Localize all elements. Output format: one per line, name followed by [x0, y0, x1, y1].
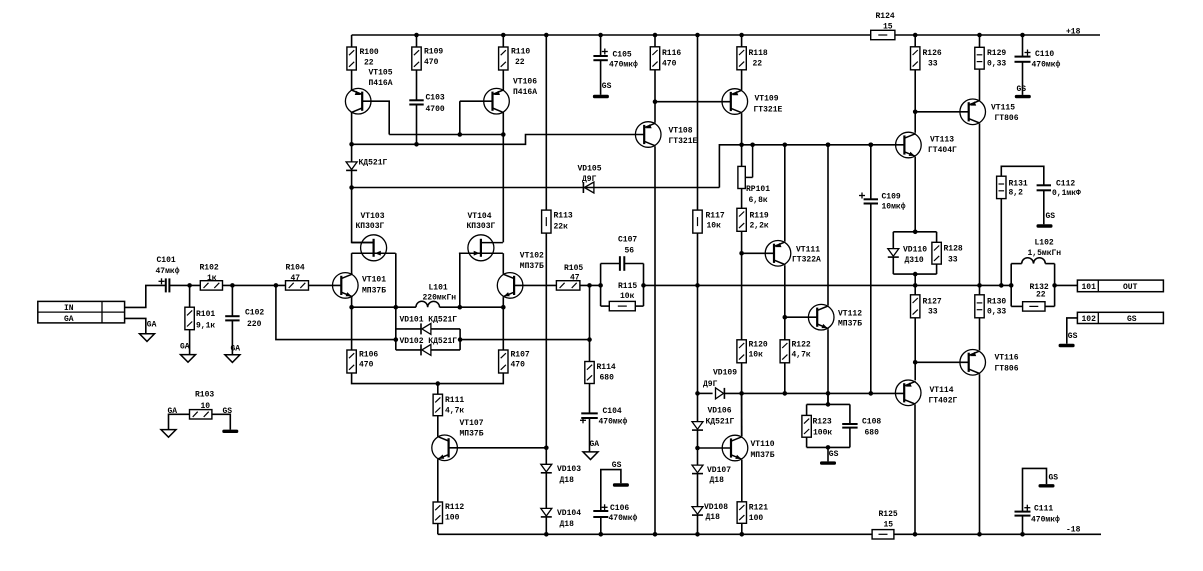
svg-text:GA: GA — [180, 342, 190, 351]
label VT106 П416А — [513, 78, 537, 97]
wire VD102 branch right — [431, 349, 460, 351]
wire R115 branch right — [635, 305, 643, 307]
svg-text:МП37Б: МП37Б — [460, 430, 484, 439]
label R103 10 — [195, 391, 214, 412]
label VT105 П416А — [369, 69, 393, 89]
wire VD110 box top line — [893, 231, 936, 233]
node VT112 emitter drive line — [826, 391, 831, 396]
node rail C110 — [1020, 33, 1025, 38]
capacitor C110 — [1015, 50, 1031, 62]
svg-text:R102: R102 — [200, 264, 219, 273]
resistor R105 — [556, 281, 580, 290]
node VT110 base — [695, 446, 700, 451]
svg-text:ГТ402Г: ГТ402Г — [929, 396, 958, 405]
svg-text:Д18: Д18 — [706, 513, 721, 522]
capacitor C109 — [859, 193, 878, 204]
label R124 15 — [876, 12, 895, 31]
svg-text:VT113: VT113 — [930, 135, 954, 144]
wire C107 branch right — [624, 263, 643, 265]
label R119 2,2к — [750, 211, 769, 230]
svg-text:GA: GA — [590, 440, 600, 449]
svg-text:GA: GA — [147, 321, 157, 330]
node VT111 collector line — [783, 143, 788, 148]
svg-text:1,5мкГн: 1,5мкГн — [1028, 249, 1062, 258]
resistor R101 — [185, 307, 194, 330]
label R123 100к — [813, 417, 833, 437]
wire R126 to node — [914, 70, 916, 133]
diode VD108 Д18 — [692, 507, 703, 515]
resistor R110 — [499, 47, 508, 70]
svg-text:0,1мкФ: 0,1мкФ — [1052, 189, 1081, 198]
node rail R116 — [653, 33, 658, 38]
diode VD107 Д18 — [692, 465, 703, 474]
wire node to VT109 base — [655, 101, 731, 103]
svg-text:R105: R105 — [564, 264, 583, 273]
svg-text:VT107: VT107 — [460, 419, 484, 428]
resistor R103 — [190, 410, 212, 419]
connector X1 IN/GA — [38, 301, 125, 324]
svg-text:R128: R128 — [944, 244, 963, 253]
svg-text:VD108: VD108 — [704, 503, 728, 512]
node R115 box right — [641, 283, 646, 288]
svg-text:R114: R114 — [597, 363, 616, 372]
label R100 22 — [360, 48, 379, 68]
svg-text:Д9Г: Д9Г — [582, 175, 597, 184]
wire C109 down — [870, 204, 872, 394]
label C102 220 — [245, 309, 264, 329]
node VT106 base riser joins — [458, 132, 463, 137]
svg-text:22к: 22к — [554, 222, 569, 231]
node rail R113 col — [544, 33, 549, 38]
connector GS — [1077, 312, 1163, 324]
wire VT113 emitter down — [914, 157, 916, 232]
svg-text:R116: R116 — [662, 49, 681, 58]
resistor R132 — [1023, 302, 1045, 311]
svg-text:VD109: VD109 — [713, 368, 737, 377]
diode VD110 Д310 — [888, 249, 899, 258]
svg-text:470: 470 — [662, 59, 677, 68]
wire R118 to VT109 — [741, 70, 743, 90]
label C110 470мкф — [1032, 50, 1061, 70]
capacitor C105 — [593, 49, 607, 61]
svg-text:GS: GS — [223, 407, 233, 416]
node VT116 rail — [977, 532, 982, 537]
node R117 mid — [695, 283, 700, 288]
wire C107 branch left — [601, 263, 620, 265]
svg-text:4,7к: 4,7к — [792, 350, 811, 359]
node VT103 gate tap — [394, 305, 399, 310]
label C107 56 — [618, 235, 637, 255]
resistor R102 — [200, 281, 222, 290]
node rail R110 — [501, 33, 506, 38]
diode VD104 Д18 — [541, 508, 552, 517]
svg-text:R120: R120 — [749, 340, 768, 349]
wire R116 to node — [654, 70, 656, 102]
label R128 33 — [944, 244, 963, 264]
label R110 22 — [511, 48, 530, 68]
svg-text:GS: GS — [1068, 332, 1078, 341]
label L102 1,5мкГн — [1028, 239, 1062, 258]
svg-text:R106: R106 — [359, 350, 378, 359]
wire R123 box bottom line — [807, 446, 850, 448]
label R118 22 — [749, 49, 768, 69]
wire VT103 source to VT101 — [351, 253, 353, 273]
svg-text:470мкф: 470мкф — [599, 417, 628, 426]
resistor R125 — [872, 530, 894, 539]
ground GA C102 — [225, 355, 240, 363]
wire R115 box right stub — [643, 264, 645, 307]
diode VD101 КД521Г — [421, 323, 431, 334]
svg-text:GS: GS — [612, 461, 622, 470]
wire C105 to ground — [600, 60, 602, 95]
wire L102 left stub — [1010, 264, 1012, 307]
wire C105 stem — [600, 35, 602, 56]
transistor VT104 КП303Г — [459, 235, 503, 261]
wire C101 to R102 — [169, 284, 200, 286]
svg-text:VD101 КД521Г: VD101 КД521Г — [400, 315, 458, 324]
svg-text:56: 56 — [625, 246, 635, 255]
label R111 4,7к — [445, 396, 464, 416]
label C101 47мкф — [156, 256, 180, 276]
wire L102 right stub — [1054, 264, 1056, 307]
node C103 mirror line — [414, 142, 419, 147]
node C109 line — [869, 143, 874, 148]
capacitor C112 — [1037, 185, 1051, 190]
wire VT108 emitter up — [654, 102, 656, 123]
wire VT106 base riser drop — [459, 101, 461, 134]
wire R131 column — [1000, 199, 1002, 286]
label R116 470 — [662, 49, 681, 69]
wire feedback drop — [276, 285, 396, 339]
node VT109 RP101 — [739, 143, 744, 148]
resistor R121 — [737, 502, 746, 524]
svg-text:VT116: VT116 — [995, 354, 1019, 363]
svg-text:C103: C103 — [426, 93, 445, 102]
wire R120 down — [741, 363, 743, 436]
wire rail to R113 — [545, 35, 547, 210]
resistor R118 — [737, 47, 746, 70]
label VT115 ГТ806 — [991, 104, 1019, 124]
wire L102 top branch left — [1011, 263, 1022, 265]
label R130 0,33 — [987, 297, 1006, 316]
wire VT110 emitter down — [741, 460, 743, 502]
wire R100 top to rail — [351, 35, 353, 47]
node VT108 rail — [653, 532, 658, 537]
wire VD107 to VD108 — [697, 474, 699, 507]
wire VT101 emitter down — [351, 297, 353, 307]
node L102 box right — [1052, 283, 1057, 288]
svg-text:C108: C108 — [862, 417, 881, 426]
svg-text:470: 470 — [359, 360, 374, 369]
wire C106 stem bottom — [600, 517, 602, 534]
node mid R114 — [587, 283, 592, 288]
wire VD110 box left top — [892, 232, 894, 248]
svg-text:МП37Б: МП37Б — [838, 320, 862, 329]
wire R114 column — [589, 285, 591, 361]
transistor VT103 КП303Г — [352, 235, 396, 261]
transistor VT113 — [896, 132, 922, 158]
wire R106-R107 bottom link — [352, 373, 504, 384]
wire VT105 emitter... collector to node — [351, 113, 353, 145]
node diode box left — [394, 337, 399, 342]
svg-text:VT103: VT103 — [361, 212, 385, 221]
svg-text:VT112: VT112 — [838, 310, 862, 319]
svg-text:R124: R124 — [876, 12, 895, 21]
svg-text:GS: GS — [602, 82, 612, 91]
wire R115 branch left — [601, 305, 610, 307]
ground GA C104 — [583, 452, 598, 460]
wire VD104 to rail — [545, 517, 547, 534]
resistor R124 — [871, 30, 895, 39]
label VD104 Д18 — [557, 509, 581, 529]
node VT104 gate tap — [458, 305, 463, 310]
label R114 680 — [597, 363, 616, 383]
transistor VT116 — [960, 350, 986, 376]
svg-text:R123: R123 — [813, 417, 832, 426]
node rail C106 — [599, 532, 604, 537]
resistor R129 — [975, 47, 984, 69]
wire R128 bottom stub — [936, 264, 938, 274]
wire lower drive line — [698, 392, 713, 394]
node diode / VAS line — [349, 185, 354, 190]
node rail R117 — [695, 33, 700, 38]
potentiometer RP101 — [738, 145, 753, 189]
wire VD110 box bottom line — [893, 273, 936, 275]
svg-text:100: 100 — [445, 513, 460, 522]
node rail C105 — [598, 33, 603, 38]
wire VT111 emitter down — [784, 265, 786, 340]
svg-text:VT102: VT102 — [520, 252, 544, 261]
wire R123 bottom stub — [806, 437, 808, 447]
svg-text:C112: C112 — [1056, 179, 1075, 188]
node VD104 rail — [544, 532, 549, 537]
node VT112 collector line — [826, 143, 831, 148]
node C101/R101 — [187, 283, 192, 288]
wire R123 stub — [806, 404, 808, 415]
svg-text:VD103: VD103 — [557, 465, 581, 474]
svg-text:КП303Г: КП303Г — [356, 222, 385, 231]
transistor VT112 — [808, 304, 834, 330]
diode КД521Г — [346, 162, 357, 171]
node R115 box left — [598, 283, 603, 288]
capacitor C107 — [620, 256, 624, 271]
svg-text:R111: R111 — [445, 396, 464, 405]
node VD110 box bottom — [913, 272, 918, 277]
resistor R126 — [911, 47, 920, 70]
inductor L102 — [1022, 258, 1046, 264]
svg-text:R126: R126 — [923, 49, 942, 58]
svg-text:R119: R119 — [750, 211, 769, 220]
wire VT107 to R112 — [437, 460, 439, 502]
wire rail to R109 — [416, 35, 418, 47]
diode VD102 КД521Г — [421, 344, 431, 355]
svg-text:C110: C110 — [1035, 50, 1054, 59]
label R106 470 — [359, 350, 378, 369]
resistor R104 — [286, 281, 309, 290]
transistor VT102 — [497, 273, 523, 299]
wire C111 top link — [1023, 468, 1047, 511]
wire VT104 gate drop — [459, 253, 461, 307]
label C111 470мкф — [1031, 504, 1060, 524]
diode VD109 Д9Г — [716, 388, 725, 399]
svg-text:C106: C106 — [610, 504, 629, 513]
wire VT112 base lead — [785, 316, 817, 318]
wire VT111 collector up — [784, 145, 786, 242]
svg-text:ГТ404Г: ГТ404Г — [928, 146, 957, 155]
wire RP101 top lead — [741, 145, 743, 167]
wire VT103 gate drop — [395, 253, 397, 350]
svg-text:9,1к: 9,1к — [196, 322, 215, 331]
svg-text:C104: C104 — [603, 407, 622, 416]
wire VT105 base riser — [362, 101, 389, 134]
wire main line right of R115 box — [644, 284, 1012, 286]
node C109 drive line — [869, 391, 874, 396]
wire R110 to VT106 — [502, 70, 504, 90]
wire VT106 base riser — [460, 100, 493, 102]
wire VT116 emitter down — [979, 374, 981, 534]
wire R115 box left stub — [600, 264, 602, 307]
wire node down to VT103 drain — [352, 188, 374, 243]
wire -18V bottom rail (left section) — [438, 533, 872, 535]
wire R111 to VT107 — [437, 416, 439, 436]
node VT101 emitter — [349, 305, 354, 310]
wire C103 to mirror line — [416, 105, 418, 145]
svg-text:R113: R113 — [554, 211, 573, 220]
label VT114 ГТ402Г — [929, 386, 958, 405]
svg-text:0,33: 0,33 — [987, 59, 1006, 68]
wire R127 to node — [914, 318, 916, 381]
label R115 10к — [618, 282, 637, 301]
svg-text:33: 33 — [948, 255, 958, 264]
resistor R112 — [433, 502, 442, 524]
label VT102 МП37Б — [520, 252, 544, 271]
wire VT107 base line — [449, 447, 547, 449]
label VT101 МП37Б — [362, 275, 386, 295]
svg-text:КД521Г: КД521Г — [359, 159, 388, 168]
svg-text:470мкф: 470мкф — [1031, 515, 1060, 524]
svg-text:VD106: VD106 — [708, 406, 732, 415]
transistor VT105 — [345, 88, 371, 114]
svg-text:VT110: VT110 — [751, 440, 775, 449]
wire VT102 base to R105 — [514, 284, 556, 286]
node R122 drive line — [783, 391, 788, 396]
ground GS R103 — [222, 430, 238, 433]
label R132 22 — [1030, 283, 1049, 299]
svg-text:VT105: VT105 — [369, 69, 393, 78]
wire R109 to C103 — [416, 70, 418, 100]
svg-text:GS: GS — [1127, 315, 1137, 324]
wire VT105 to diode — [351, 144, 353, 161]
label R109 470 — [424, 48, 443, 68]
wire C112 to ground — [1043, 190, 1045, 224]
label VT116 ГТ806 — [995, 354, 1019, 374]
wire VD110 box left bottom — [892, 257, 894, 274]
wire R100 to VT105 — [351, 70, 353, 90]
wire VD101 branch — [396, 328, 421, 330]
label R113 22к — [554, 211, 573, 231]
node rail C111 — [1020, 532, 1025, 537]
svg-text:4700: 4700 — [426, 105, 445, 114]
label VD105 Д9Г — [578, 164, 602, 184]
label VD103 Д18 — [557, 465, 581, 485]
node VT112 base tap — [783, 315, 788, 320]
transistor VT110 — [722, 435, 748, 461]
wire to OUT connector — [1055, 284, 1078, 286]
wire VT112 emitter down — [827, 329, 829, 404]
ground GA input — [140, 334, 155, 342]
node VT114 rail — [913, 532, 918, 537]
svg-text:22: 22 — [1036, 290, 1046, 299]
svg-text:R115: R115 — [618, 282, 637, 291]
node VT106 collector joins — [501, 132, 506, 137]
node R111 tap — [436, 381, 441, 386]
wire emitter line right — [440, 306, 504, 308]
ground GA R103 — [161, 430, 176, 438]
label VT110 МП37Б — [751, 440, 775, 460]
resistor R127 — [911, 295, 920, 318]
svg-text:47мкф: 47мкф — [156, 267, 180, 276]
svg-text:VT108: VT108 — [669, 126, 693, 135]
label VT104 КП303Г — [467, 212, 496, 231]
svg-text:10к: 10к — [749, 350, 764, 359]
wire R103 right to GS — [212, 414, 230, 429]
wire VD106 to node — [697, 430, 699, 465]
capacitor C106 — [593, 504, 608, 517]
diode VD103 Д18 — [541, 464, 552, 473]
wire rail to R110 — [502, 35, 504, 47]
wire R106 column — [351, 307, 353, 350]
wire VD101 branch right — [431, 328, 460, 330]
wire R132 branch left — [1011, 305, 1022, 307]
ground GS C111 — [1039, 484, 1055, 487]
svg-text:VD104: VD104 — [557, 509, 581, 518]
label R126 33 — [923, 49, 942, 69]
wire mirror bias line — [352, 135, 645, 145]
wire C108 stub — [849, 404, 851, 424]
node L102 box left — [1009, 283, 1014, 288]
ground GS C112 — [1037, 224, 1053, 227]
svg-text:0,33: 0,33 — [987, 308, 1006, 317]
wire rail to R118 — [741, 35, 743, 47]
svg-text:Д310: Д310 — [905, 256, 924, 265]
svg-text:VT106: VT106 — [513, 78, 537, 87]
label C112 0,1мкФ — [1052, 179, 1081, 198]
transistor VT115 — [960, 99, 986, 125]
wire VT109 collector down — [741, 113, 743, 145]
wire mid to R130 — [979, 285, 981, 294]
svg-text:П416А: П416А — [513, 88, 537, 97]
node VT102 emitter — [501, 305, 506, 310]
resistor R117 — [693, 210, 702, 233]
label VT112 МП37Б — [838, 310, 862, 329]
label R102 1к — [200, 264, 219, 283]
resistor R107 — [499, 350, 508, 373]
svg-text:GS: GS — [1049, 474, 1059, 483]
svg-text:470: 470 — [424, 58, 439, 67]
wire mid to R127 — [914, 285, 916, 294]
transistor VT109 — [722, 89, 748, 115]
wire VT116 base lead — [915, 361, 969, 363]
transistor VT114 — [895, 380, 921, 406]
svg-text:GA: GA — [168, 407, 178, 416]
resistor R130 — [975, 295, 984, 318]
svg-text:C105: C105 — [613, 50, 632, 59]
inductor L101 — [416, 301, 440, 307]
label VT109 ГТ321Е — [754, 95, 783, 115]
svg-text:470мкф: 470мкф — [609, 514, 638, 523]
wire R104 to VT101 base — [309, 284, 342, 286]
svg-text:C111: C111 — [1034, 504, 1053, 513]
